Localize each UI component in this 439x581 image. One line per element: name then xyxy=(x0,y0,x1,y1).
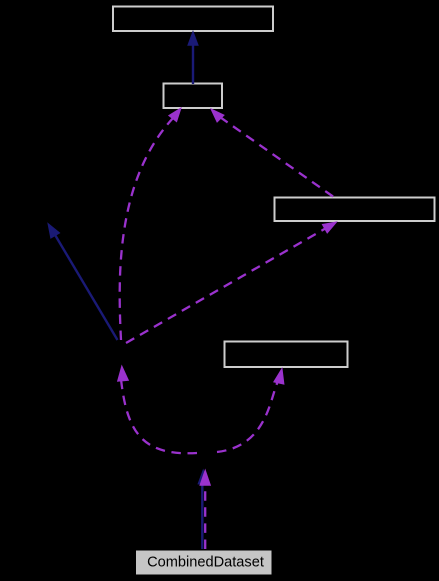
node box right (empty label) xyxy=(275,198,435,222)
blue inheritance arrow: CombinedDataset up to hidden node xyxy=(198,470,208,549)
blue inheritance arrow: hidden node to upper-left xyxy=(48,224,118,341)
purple dashed edge: hidden node X up-right to right box bottom xyxy=(126,222,337,343)
purple dashed edge: hidden node Z right-curve up to middle-right box xyxy=(217,369,284,453)
purple dashed edge: hidden node Z left-curve up to hidden node X xyxy=(118,366,197,453)
purple dashed edge: CombinedDataset up to hidden node Z xyxy=(200,470,210,549)
node box top (empty label) xyxy=(113,7,273,32)
purple dashed edge: right box up-left to second box (right arrowhead) xyxy=(211,109,333,197)
purple dashed edge: hidden node X up-curve to second box (left arrowhead) xyxy=(120,108,181,340)
node box second (empty label) xyxy=(164,84,223,109)
blue inheritance arrow: second box to top box xyxy=(188,32,198,85)
node box middle-right (empty label) xyxy=(225,342,348,368)
svg-text:CombinedDataset: CombinedDataset xyxy=(147,555,264,571)
node CombinedDataset (current class, grey filled) xyxy=(136,551,272,575)
